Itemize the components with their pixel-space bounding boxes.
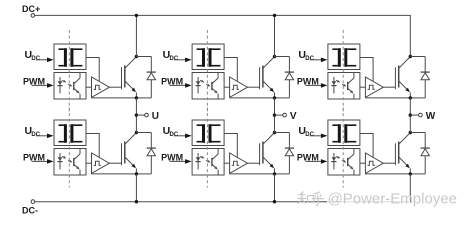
freewheeling diode (phase V high side) — [285, 57, 294, 98]
optocoupler (phase V high side) — [192, 73, 224, 100]
wire diode anode to emitter node (phase V low side) — [275, 173, 290, 175]
wire driver ground return to emitter node (phase U high side) — [92, 97, 137, 99]
svg-text:PWM: PWM — [297, 152, 319, 162]
optocoupler (phase V low side) — [192, 149, 224, 176]
wire phase W output branch — [410, 114, 418, 116]
driver amplifier (phase U low side) — [92, 153, 110, 173]
svg-text:DC: DC — [31, 56, 40, 62]
junction emitter node (phase V high side) — [273, 96, 276, 99]
wire diode anode to emitter node (phase U high side) — [136, 97, 151, 99]
svg-text:DC+: DC+ — [22, 4, 40, 14]
terminal DC- — [31, 200, 35, 204]
wire transformer secondary to amp supply (phase W low side) — [360, 134, 373, 158]
arrow PWM input (phase U low side) — [32, 159, 54, 164]
wire phase U low-side emitter to DC- rail — [135, 174, 137, 202]
svg-text:DC: DC — [305, 56, 314, 62]
label U_DC (phase W low side) — [298, 125, 314, 138]
svg-text:DC: DC — [170, 132, 179, 138]
freewheeling diode (phase V low side) — [285, 133, 294, 174]
wire amp output to IGBT gate (phase U high side) — [109, 86, 121, 88]
isolation transformer (phase V low side) — [192, 120, 224, 146]
wire driver ground return to emitter node (phase W low side) — [365, 173, 410, 175]
wire diode anode to emitter node (phase W high side) — [410, 97, 425, 99]
wire opto output to driver amp (phase U low side) — [86, 162, 92, 164]
watermark background — [327, 197, 410, 208]
arrow U_DC input (phase U high side) — [36, 58, 54, 63]
wire amp output to IGBT gate (phase V high side) — [248, 86, 260, 88]
IGBT (phase V low side) — [260, 133, 275, 174]
wire amp output to IGBT gate (phase U low side) — [109, 162, 121, 164]
wire transformer secondary to amp supply (phase U low side) — [86, 134, 99, 158]
junction DC+ rail / phase U — [135, 14, 138, 17]
arrow U_DC input (phase W high side) — [310, 58, 328, 63]
freewheeling diode (phase U high side) — [147, 57, 156, 98]
wire driver ground return to emitter node (phase U low side) — [92, 173, 137, 175]
junction emitter node (phase W high side) — [409, 96, 412, 99]
arrow U_DC input (phase W low side) — [310, 134, 328, 139]
IGBT (phase U low side) — [122, 133, 137, 174]
wire phase U output branch — [136, 114, 144, 116]
junction DC+ rail / phase V — [273, 14, 276, 17]
freewheeling diode (phase U low side) — [147, 133, 156, 174]
junction collector node (phase U low side) — [135, 131, 138, 134]
wire phase U half-bridge midpoint bus — [135, 98, 137, 133]
terminal output U — [145, 113, 149, 117]
wire collector to diode cathode (phase U low side) — [136, 132, 151, 134]
svg-text:V: V — [290, 111, 297, 122]
svg-text:@Power-Employee: @Power-Employee — [328, 191, 457, 208]
junction collector node (phase W low side) — [409, 131, 412, 134]
wire phase V low-side emitter to DC- rail — [274, 174, 276, 202]
arrow PWM input (phase U high side) — [32, 83, 54, 88]
arrow PWM input (phase W high side) — [306, 83, 328, 88]
wire transformer secondary to amp supply (phase V high side) — [224, 58, 237, 82]
junction emitter node (phase U low side) — [135, 172, 138, 175]
wire opto output to driver amp (phase W low side) — [360, 162, 366, 164]
junction DC- rail / phase V — [273, 200, 276, 203]
wire DC+ rail drop to phase U collector — [135, 15, 137, 56]
junction collector node (phase W high side) — [409, 55, 412, 58]
IGBT (phase V high side) — [260, 57, 275, 98]
svg-text:U: U — [152, 111, 159, 122]
wire DC- bottom rail — [35, 201, 411, 203]
freewheeling diode (phase W high side) — [421, 57, 430, 98]
wire driver ground return to emitter node (phase V high side) — [230, 97, 275, 99]
svg-text:DC: DC — [31, 132, 40, 138]
terminal output V — [283, 113, 287, 117]
driver amplifier (phase U high side) — [92, 77, 110, 97]
arrow PWM input (phase V high side) — [170, 83, 192, 88]
watermark 知乎 glyphs — [297, 192, 324, 206]
wire phase V half-bridge midpoint bus — [274, 98, 276, 133]
driver amplifier (phase W low side) — [365, 153, 383, 173]
isolation barrier (dashed) (phase V low side) — [206, 108, 208, 188]
label U_DC (phase V high side) — [163, 49, 179, 62]
isolation barrier (dashed) (phase U high side) — [68, 30, 70, 112]
wire amp output to IGBT gate (phase W low side) — [383, 162, 395, 164]
svg-text:PWM: PWM — [161, 76, 183, 86]
optocoupler (phase W low side) — [328, 149, 360, 176]
wire phase V output branch — [275, 114, 283, 116]
isolation barrier (dashed) (phase W high side) — [342, 30, 344, 112]
wire transformer secondary to amp supply (phase W high side) — [360, 58, 373, 82]
isolation transformer (phase U high side) — [54, 44, 86, 70]
arrow U_DC input (phase V low side) — [174, 134, 192, 139]
junction collector node (phase V high side) — [273, 55, 276, 58]
arrow PWM input (phase W low side) — [306, 159, 328, 164]
terminal output W — [419, 113, 423, 117]
IGBT (phase U high side) — [122, 57, 137, 98]
arrow PWM input (phase V low side) — [170, 159, 192, 164]
junction DC- rail / phase U — [135, 200, 138, 203]
junction phase W output node — [409, 113, 412, 116]
wire collector to diode cathode (phase U high side) — [136, 56, 151, 58]
wire collector to diode cathode (phase V high side) — [275, 56, 290, 58]
junction emitter node (phase W low side) — [409, 172, 412, 175]
wire diode anode to emitter node (phase U low side) — [136, 173, 151, 175]
wire DC+ rail drop to phase V collector — [274, 15, 276, 56]
isolation barrier (dashed) (phase U low side) — [68, 108, 70, 188]
wire phase W low-side emitter to DC- rail — [409, 174, 411, 202]
optocoupler (phase U low side) — [54, 149, 86, 176]
junction emitter node (phase V low side) — [273, 172, 276, 175]
svg-text:PWM: PWM — [161, 152, 183, 162]
freewheeling diode (phase W low side) — [421, 133, 430, 174]
wire collector to diode cathode (phase W low side) — [410, 132, 425, 134]
terminal DC+ — [31, 14, 35, 18]
wire driver ground return to emitter node (phase V low side) — [230, 173, 275, 175]
arrow U_DC input (phase U low side) — [36, 134, 54, 139]
wire collector to diode cathode (phase W high side) — [410, 56, 425, 58]
svg-text:PWM: PWM — [297, 76, 319, 86]
IGBT (phase W high side) — [395, 57, 410, 98]
isolation transformer (phase U low side) — [54, 120, 86, 146]
optocoupler (phase U high side) — [54, 73, 86, 100]
wire DC+ top rail — [35, 15, 411, 56]
wire diode anode to emitter node (phase W low side) — [410, 173, 425, 175]
wire opto output to driver amp (phase U high side) — [86, 86, 92, 88]
driver amplifier (phase V high side) — [230, 77, 248, 97]
IGBT (phase W low side) — [395, 133, 410, 174]
wire transformer secondary to amp supply (phase V low side) — [224, 134, 237, 158]
wire amp output to IGBT gate (phase V low side) — [248, 162, 260, 164]
wire opto output to driver amp (phase V high side) — [224, 86, 230, 88]
wire opto output to driver amp (phase W high side) — [360, 86, 366, 88]
arrow U_DC input (phase V high side) — [174, 58, 192, 63]
label U_DC (phase V low side) — [163, 125, 179, 138]
driver amplifier (phase V low side) — [230, 153, 248, 173]
svg-text:DC: DC — [305, 132, 314, 138]
isolation barrier (dashed) (phase W low side) — [342, 108, 344, 188]
wire phase W half-bridge midpoint bus — [409, 98, 411, 133]
junction phase U output node — [135, 113, 138, 116]
junction phase V output node — [273, 113, 276, 116]
junction collector node (phase V low side) — [273, 131, 276, 134]
svg-text:W: W — [426, 111, 436, 122]
driver amplifier (phase W high side) — [365, 77, 383, 97]
isolation barrier (dashed) (phase V high side) — [206, 30, 208, 112]
isolation transformer (phase W low side) — [328, 120, 360, 146]
label U_DC (phase U high side) — [25, 49, 41, 62]
isolation transformer (phase V high side) — [192, 44, 224, 70]
wire collector to diode cathode (phase V low side) — [275, 132, 290, 134]
svg-text:DC-: DC- — [22, 206, 38, 216]
wire transformer secondary to amp supply (phase U high side) — [86, 58, 99, 82]
wire amp output to IGBT gate (phase W high side) — [383, 86, 395, 88]
label U_DC (phase W high side) — [298, 49, 314, 62]
svg-text:PWM: PWM — [23, 152, 45, 162]
svg-text:DC: DC — [170, 56, 179, 62]
junction collector node (phase U high side) — [135, 55, 138, 58]
wire driver ground return to emitter node (phase W high side) — [365, 97, 410, 99]
label U_DC (phase U low side) — [25, 125, 41, 138]
wire diode anode to emitter node (phase V high side) — [275, 97, 290, 99]
svg-text:PWM: PWM — [23, 76, 45, 86]
wire opto output to driver amp (phase V low side) — [224, 162, 230, 164]
isolation transformer (phase W high side) — [328, 44, 360, 70]
junction emitter node (phase U high side) — [135, 96, 138, 99]
optocoupler (phase W high side) — [328, 73, 360, 100]
